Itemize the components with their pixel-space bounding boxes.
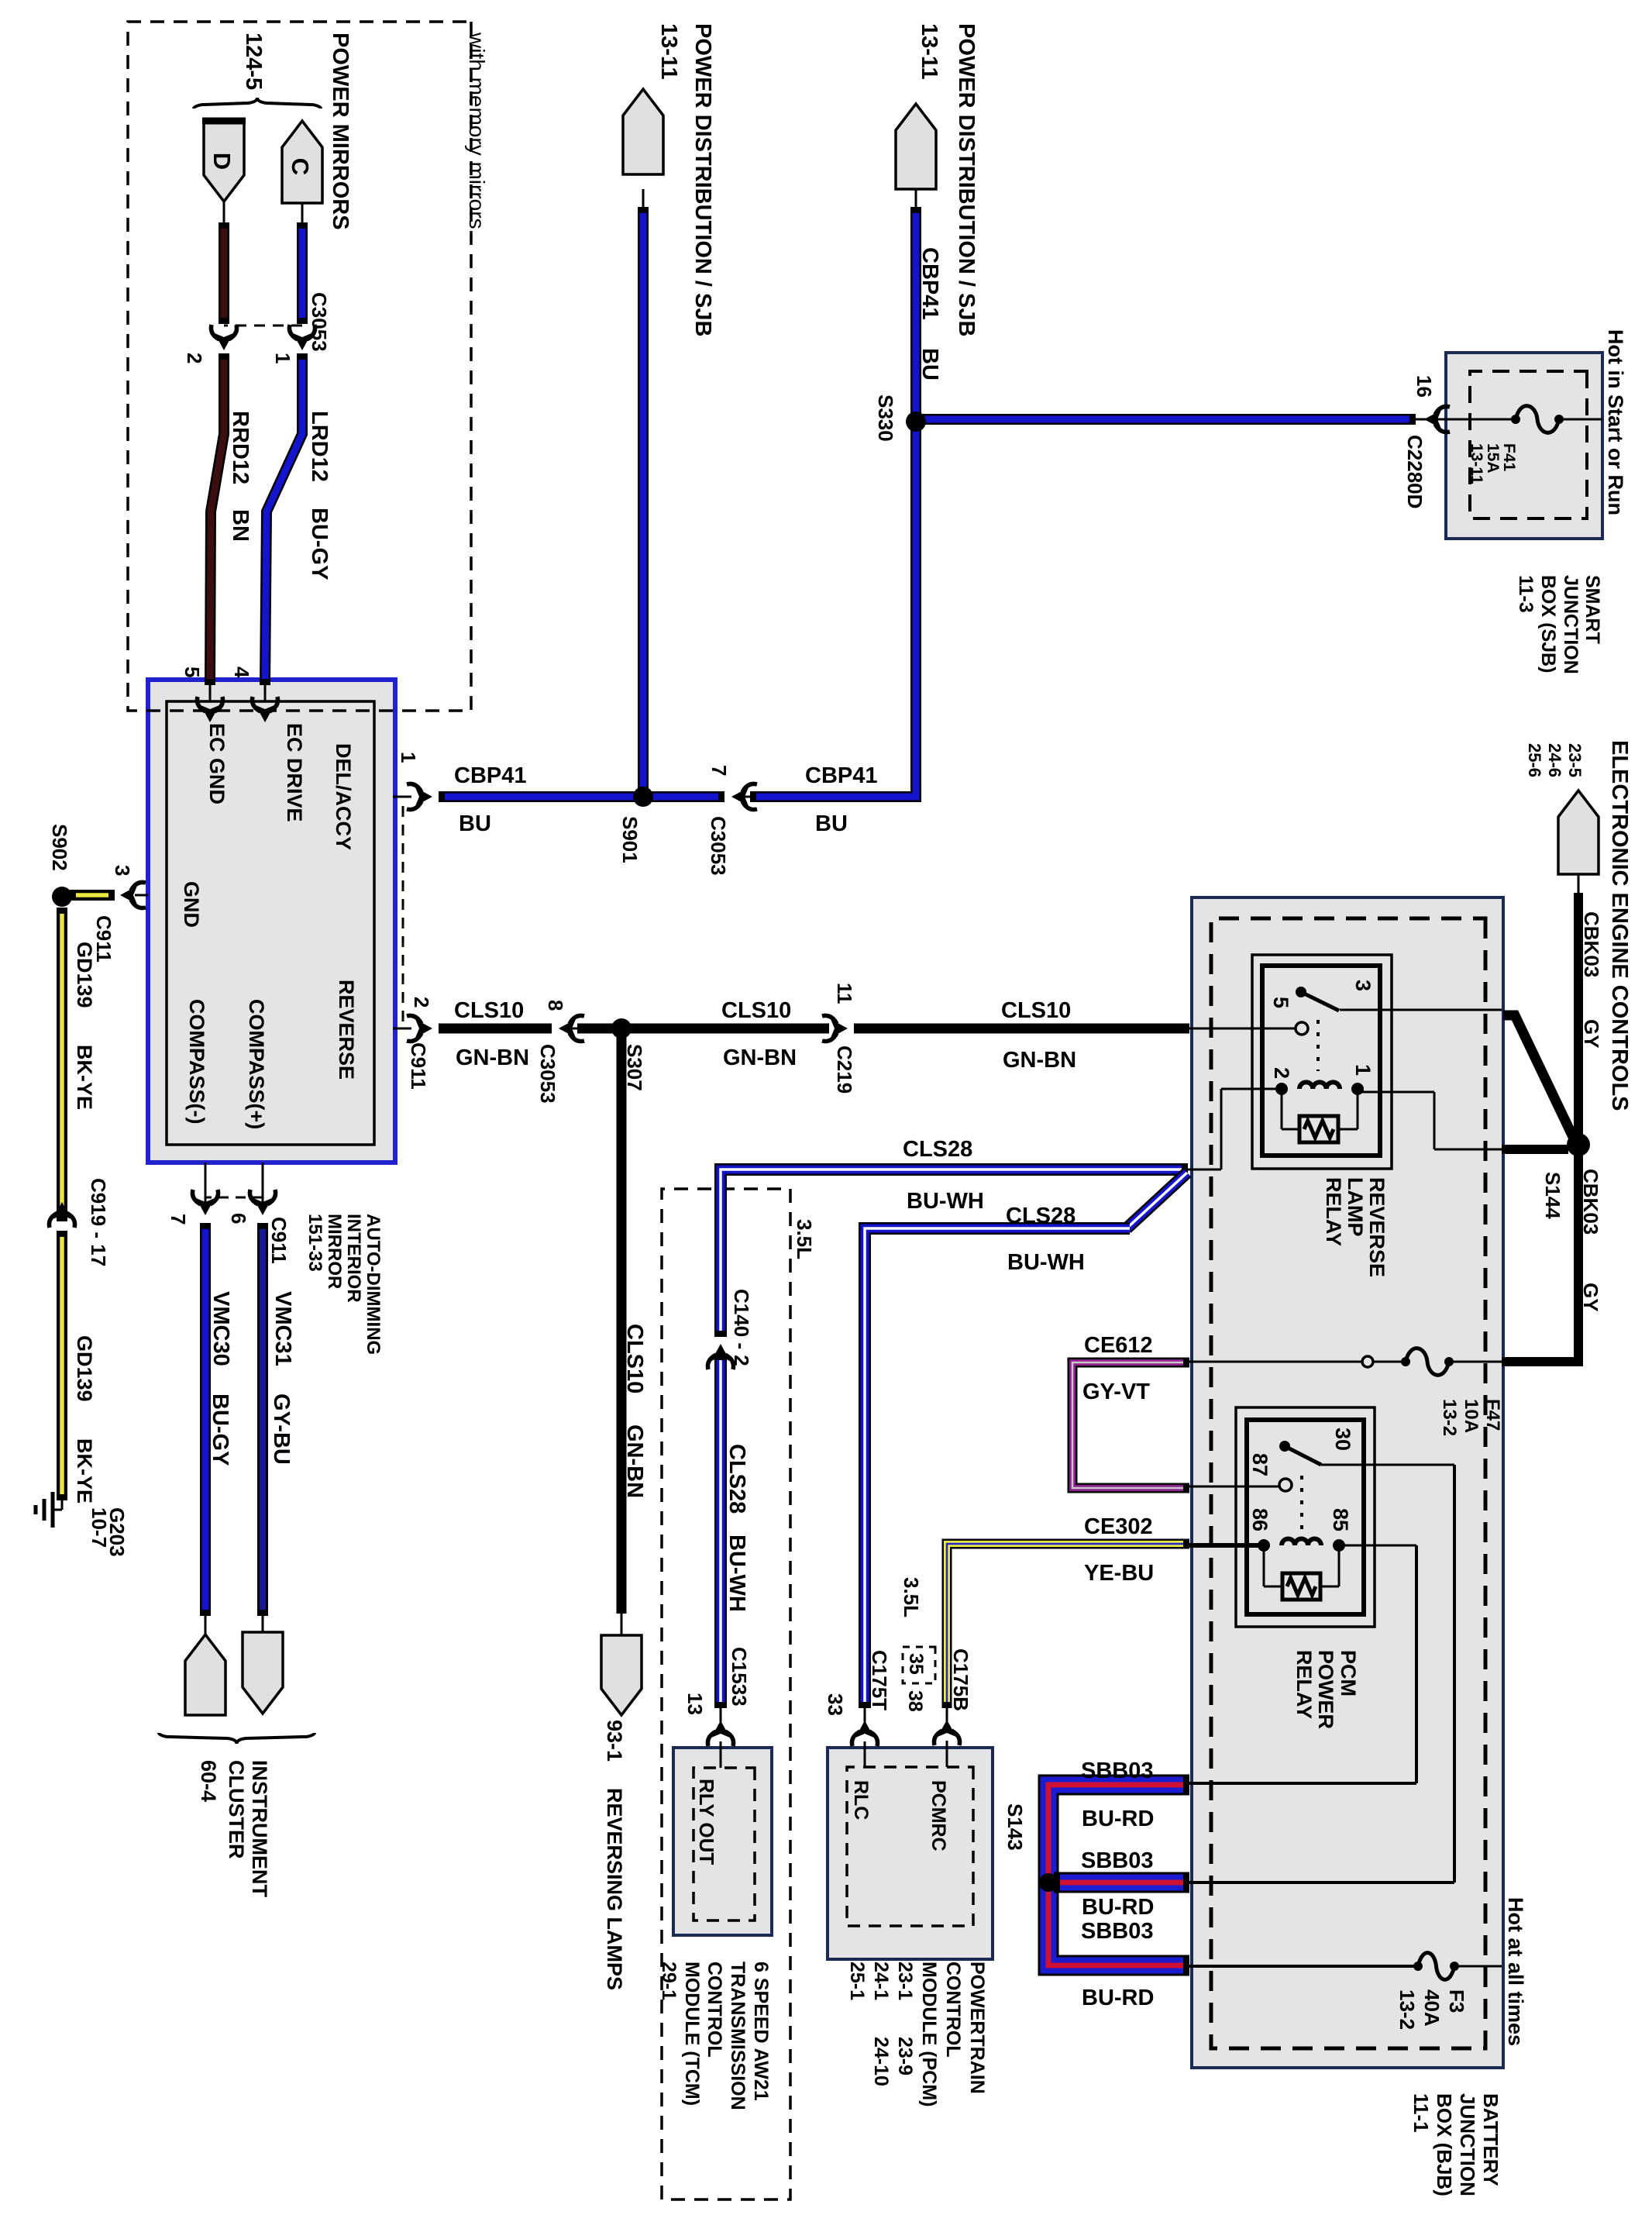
reverse lamp relay link dotted bbox=[1316, 1020, 1320, 1071]
svg-text:7: 7 bbox=[707, 765, 731, 776]
power mirrors brace 124-5 bbox=[194, 98, 321, 109]
svg-text:BOX (SJB): BOX (SJB) bbox=[1537, 575, 1559, 673]
wire CLS28 BU-WH diagonal split to PCM branch bbox=[1127, 1173, 1187, 1228]
svg-text:1: 1 bbox=[271, 353, 294, 363]
svg-text:GD139: GD139 bbox=[73, 942, 96, 1008]
svg-text:INTERIOR: INTERIOR bbox=[343, 1214, 364, 1303]
svg-text:C140 - 2: C140 - 2 bbox=[730, 1289, 753, 1366]
connector C911 pins 6 7 dashed link bbox=[205, 1197, 263, 1199]
svg-text:BU-GY: BU-GY bbox=[307, 508, 332, 580]
svg-text:CLS10: CLS10 bbox=[721, 998, 791, 1023]
svg-text:C3053: C3053 bbox=[707, 816, 730, 876]
svg-text:25-1: 25-1 bbox=[846, 1962, 868, 2000]
wire LRD12 BU-GY power mirror C to mirror pin4 bbox=[301, 203, 304, 225]
svg-text:SBB03: SBB03 bbox=[1081, 1848, 1154, 1873]
svg-text:8: 8 bbox=[544, 1000, 567, 1011]
svg-text:23-9: 23-9 bbox=[894, 2037, 916, 2075]
svg-text:TRANSMISSION: TRANSMISSION bbox=[727, 1962, 749, 2110]
wire S144 drop to relay pin1 feed bbox=[1502, 1145, 1568, 1154]
svg-text:RELAY: RELAY bbox=[1292, 1650, 1316, 1719]
svg-text:24-6: 24-6 bbox=[1545, 743, 1564, 777]
svg-text:JUNCTION: JUNCTION bbox=[1560, 575, 1581, 674]
svg-text:POWER: POWER bbox=[1314, 1650, 1337, 1729]
svg-text:C219: C219 bbox=[833, 1045, 856, 1094]
svg-text:ELECTRONIC ENGINE CONTROLS: ELECTRONIC ENGINE CONTROLS bbox=[1607, 740, 1632, 1111]
wire relay 87 drop inside BJB bbox=[1189, 1486, 1280, 1488]
svg-text:60-4: 60-4 bbox=[197, 1760, 220, 1802]
power distribution SJB arrow lower bbox=[623, 89, 663, 174]
wire CLS28 BU-WH vertical and run to PCM pin 33 bbox=[865, 1228, 1130, 1708]
ground G203 bbox=[51, 1492, 55, 1528]
wire RRD12 BN power mirror D to mirror pin5 bbox=[223, 202, 225, 225]
wire CBP41 BU S330 up to SJB C2280D bbox=[915, 414, 1416, 425]
svg-text:25-6: 25-6 bbox=[1525, 743, 1544, 777]
svg-text:Hot in Start or Run: Hot in Start or Run bbox=[1604, 329, 1627, 515]
svg-text:GY-BU: GY-BU bbox=[269, 1393, 294, 1465]
wire S144 diagonal to reverse relay pin3 bbox=[1503, 1015, 1574, 1138]
svg-text:LAMP: LAMP bbox=[1344, 1177, 1367, 1237]
svg-text:16: 16 bbox=[1413, 375, 1436, 398]
svg-text:C3053: C3053 bbox=[536, 1044, 559, 1104]
PCM power relay coil line to CE302 bbox=[1189, 1543, 1264, 1548]
reverse lamp relay resistor bbox=[1357, 1089, 1359, 1129]
svg-text:85: 85 bbox=[1329, 1508, 1352, 1531]
svg-text:C175B: C175B bbox=[949, 1648, 972, 1711]
svg-text:S307: S307 bbox=[623, 1044, 646, 1091]
svg-text:BU-WH: BU-WH bbox=[1007, 1250, 1085, 1275]
svg-text:CBK03: CBK03 bbox=[1579, 1169, 1602, 1235]
svg-text:CBP41: CBP41 bbox=[917, 247, 942, 320]
TCM 3.5L dashed outline bbox=[662, 1189, 790, 2199]
svg-text:POWER MIRRORS: POWER MIRRORS bbox=[328, 33, 353, 230]
wire SJB pin16 to fuse F41 bbox=[1446, 419, 1516, 421]
svg-text:INSTRUMENT: INSTRUMENT bbox=[248, 1760, 271, 1897]
svg-text:CLS10: CLS10 bbox=[1001, 998, 1071, 1023]
reverse lamp relay switch bbox=[1296, 987, 1306, 997]
svg-text:11-3: 11-3 bbox=[1515, 575, 1537, 613]
svg-text:1: 1 bbox=[1351, 1064, 1375, 1076]
svg-text:CLS28: CLS28 bbox=[1006, 1204, 1076, 1228]
svg-text:VMC31: VMC31 bbox=[270, 1291, 295, 1366]
svg-text:4: 4 bbox=[230, 667, 253, 678]
reverse lamp relay box bbox=[1252, 955, 1392, 1169]
svg-text:40A: 40A bbox=[1420, 1989, 1444, 2027]
svg-text:MODULE (TCM): MODULE (TCM) bbox=[681, 1962, 703, 2106]
reversing lamps arrow bbox=[601, 1635, 642, 1715]
svg-text:C2280D: C2280D bbox=[1403, 435, 1427, 508]
svg-text:3: 3 bbox=[1351, 980, 1375, 991]
svg-text:BK-YE: BK-YE bbox=[73, 1045, 96, 1110]
svg-text:33: 33 bbox=[824, 1693, 847, 1716]
svg-text:GN-BN: GN-BN bbox=[456, 1045, 529, 1070]
wire CLS10 GN-BN C219 to reverse lamp relay bbox=[822, 1015, 848, 1041]
svg-text:10-7: 10-7 bbox=[88, 1507, 111, 1548]
with memory mirrors dashed box bbox=[128, 22, 471, 711]
svg-text:BN: BN bbox=[228, 509, 253, 542]
wire GD139 BK-YE mirror GND pin3 to S902 bbox=[135, 894, 148, 897]
connector C911 mirror pins 1 2 dashed link bbox=[402, 806, 404, 1027]
wire SBB03 BU-RD 1 and 3 with S143 link bbox=[1048, 1785, 1189, 1965]
connector C175B pin35/38 arrow bbox=[934, 1720, 959, 1745]
svg-text:POWER DISTRIBUTION / SJB: POWER DISTRIBUTION / SJB bbox=[954, 23, 979, 336]
svg-text:YE-BU: YE-BU bbox=[1084, 1561, 1154, 1586]
svg-text:LRD12: LRD12 bbox=[307, 411, 332, 482]
svg-text:93-1: 93-1 bbox=[603, 1720, 626, 1762]
svg-text:124-5: 124-5 bbox=[241, 33, 266, 90]
svg-text:BU-RD: BU-RD bbox=[1082, 1807, 1154, 1831]
wire PCM relay coil top feed from SBB03 1 bbox=[1343, 1545, 1416, 1547]
junction S902 bbox=[52, 887, 72, 907]
svg-text:COMPASS(+): COMPASS(+) bbox=[245, 999, 268, 1129]
svg-text:CLUSTER: CLUSTER bbox=[225, 1760, 248, 1859]
svg-text:13-2: 13-2 bbox=[1396, 1989, 1419, 2030]
svg-text:6 SPEED AW21: 6 SPEED AW21 bbox=[750, 1962, 772, 2101]
svg-text:S902: S902 bbox=[48, 824, 71, 871]
wire F3 string bbox=[1457, 1965, 1502, 1968]
svg-text:BU-GY: BU-GY bbox=[208, 1393, 232, 1466]
svg-text:BK-YE: BK-YE bbox=[73, 1438, 96, 1504]
svg-text:13-11: 13-11 bbox=[917, 23, 941, 80]
connector C2280D pin16 arrow bbox=[1424, 406, 1450, 432]
svg-text:86: 86 bbox=[1248, 1508, 1272, 1531]
svg-text:C911: C911 bbox=[407, 1042, 430, 1090]
svg-text:29-1: 29-1 bbox=[658, 1962, 680, 2000]
svg-text:DEL/ACCY: DEL/ACCY bbox=[332, 743, 355, 850]
svg-text:with memory mirrors: with memory mirrors bbox=[465, 32, 489, 229]
svg-text:GN-BN: GN-BN bbox=[723, 1045, 797, 1070]
svg-text:23-1: 23-1 bbox=[894, 1962, 916, 2000]
electronic engine controls arrow bbox=[1558, 791, 1599, 874]
svg-text:13-11: 13-11 bbox=[1468, 443, 1485, 484]
svg-text:BU: BU bbox=[917, 348, 942, 381]
svg-text:24-10: 24-10 bbox=[870, 2037, 892, 2086]
svg-text:7: 7 bbox=[167, 1214, 190, 1225]
svg-text:87: 87 bbox=[1248, 1453, 1272, 1476]
junction S143 bbox=[1039, 1873, 1058, 1892]
svg-text:VMC30: VMC30 bbox=[208, 1291, 233, 1366]
PCM power relay box bbox=[1236, 1407, 1375, 1627]
svg-text:CBP41: CBP41 bbox=[454, 763, 527, 788]
wire CBP41 BU from power distribution arrow to S901 bbox=[642, 189, 645, 209]
svg-text:SBB03: SBB03 bbox=[1081, 1919, 1154, 1944]
fuse F41 15A bbox=[1516, 406, 1559, 433]
svg-text:24-1: 24-1 bbox=[870, 1962, 892, 2000]
wire SBB03 BU-RD 2 bbox=[1054, 1872, 1189, 1893]
svg-text:POWER DISTRIBUTION / SJB: POWER DISTRIBUTION / SJB bbox=[690, 23, 715, 336]
fuse F47 10A bbox=[1406, 1349, 1449, 1376]
svg-text:PCM: PCM bbox=[1337, 1650, 1360, 1696]
svg-text:38: 38 bbox=[904, 1690, 926, 1712]
svg-text:D: D bbox=[208, 153, 236, 170]
svg-text:RLY OUT: RLY OUT bbox=[695, 1779, 718, 1865]
power mirror arrow C bbox=[282, 121, 322, 203]
svg-text:11: 11 bbox=[833, 983, 856, 1004]
wire VMC30 BU-GY mirror pin7 to instrument cluster bbox=[205, 1163, 207, 1206]
PCM box bbox=[828, 1748, 993, 1959]
svg-text:C175T: C175T bbox=[868, 1650, 891, 1710]
svg-text:GY: GY bbox=[1580, 1019, 1603, 1049]
connector C1533 pin13 arrow bbox=[707, 1721, 733, 1746]
svg-text:35: 35 bbox=[905, 1653, 927, 1675]
svg-text:F47: F47 bbox=[1482, 1399, 1503, 1431]
wire reverse relay pin3 riser bbox=[1340, 1009, 1502, 1011]
wire reverse relay pin2 to CLS28 exit bbox=[1221, 1088, 1277, 1090]
svg-text:CLS28: CLS28 bbox=[724, 1444, 749, 1514]
svg-text:BOX (BJB): BOX (BJB) bbox=[1433, 2093, 1456, 2196]
svg-text:C1533: C1533 bbox=[728, 1647, 751, 1707]
svg-text:13-2: 13-2 bbox=[1439, 1399, 1460, 1436]
wire CBP41 BU pin1 to S901 segment bbox=[393, 796, 411, 798]
TCM box bbox=[673, 1748, 772, 1935]
svg-text:MIRROR: MIRROR bbox=[324, 1214, 345, 1289]
auto-dimming interior mirror box bbox=[148, 680, 395, 1163]
svg-text:BU: BU bbox=[459, 811, 491, 836]
svg-text:AUTO-DIMMING: AUTO-DIMMING bbox=[363, 1214, 384, 1355]
svg-text:CLS28: CLS28 bbox=[903, 1137, 972, 1162]
svg-text:GD139: GD139 bbox=[73, 1335, 96, 1402]
svg-text:CLS10: CLS10 bbox=[454, 998, 524, 1023]
svg-text:3: 3 bbox=[111, 865, 134, 876]
svg-text:CE612: CE612 bbox=[1084, 1333, 1153, 1358]
wire VMC31 GY-BU mirror pin6 to instrument cluster bbox=[262, 1163, 264, 1206]
svg-text:RLC: RLC bbox=[850, 1780, 872, 1820]
svg-text:BU: BU bbox=[815, 811, 848, 836]
svg-text:S330: S330 bbox=[874, 394, 897, 442]
svg-text:F3: F3 bbox=[1445, 1989, 1468, 2013]
svg-text:13: 13 bbox=[683, 1693, 707, 1715]
power distribution SJB arrow upper bbox=[896, 104, 936, 189]
connector C3053 power mirror labels bbox=[224, 325, 302, 327]
battery junction box BJB bbox=[1192, 897, 1503, 2068]
svg-text:3.5L: 3.5L bbox=[900, 1577, 923, 1617]
svg-text:GND: GND bbox=[180, 881, 203, 928]
wire PCM relay pin30 riser and feed from SBB03 2 bbox=[1321, 1464, 1454, 1466]
wire CLS10 GN-BN pin2 segment bbox=[393, 1028, 411, 1030]
wire GD139 BK-YE C919-17 to G203 ground bbox=[57, 1231, 67, 1500]
junction S144 bbox=[1567, 1133, 1590, 1156]
instrument cluster brace bbox=[159, 1733, 315, 1744]
power mirror arrow D bbox=[204, 121, 244, 202]
svg-text:MODULE (PCM): MODULE (PCM) bbox=[918, 1962, 940, 2106]
wire GD139 BK-YE S902 to C919-17 bbox=[57, 908, 67, 1221]
instrument cluster arrow pin6 bbox=[243, 1632, 283, 1714]
svg-text:COMPASS(-): COMPASS(-) bbox=[185, 999, 208, 1125]
smart junction box SJB bbox=[1446, 353, 1602, 539]
svg-text:C911: C911 bbox=[267, 1217, 291, 1264]
wire CLS28 BU-WH relay pin2 exit run to C140-2 bbox=[721, 1169, 1188, 1337]
wire CLS10 inside BJB to relay pin5 bbox=[1189, 1028, 1296, 1030]
svg-text:15A: 15A bbox=[1484, 443, 1502, 474]
wire CE302 YE-BU BJB coil to PCM pin 35/38 bbox=[947, 1544, 1189, 1708]
junction S330 bbox=[906, 412, 926, 432]
svg-text:REVERSE: REVERSE bbox=[1365, 1177, 1389, 1277]
svg-text:CE302: CE302 bbox=[1084, 1514, 1153, 1539]
svg-text:2: 2 bbox=[410, 997, 433, 1008]
svg-text:151-33: 151-33 bbox=[305, 1214, 325, 1272]
svg-text:CBP41: CBP41 bbox=[805, 763, 878, 788]
wire CBP41 BU S330 to corner to C3053-7 bbox=[750, 422, 916, 797]
svg-text:S144: S144 bbox=[1541, 1172, 1564, 1219]
wire CLS10 GN-BN C3053-8 to S307 bbox=[559, 1015, 584, 1041]
junction S307 bbox=[611, 1018, 632, 1039]
wire F47 string inside BJB bbox=[1449, 1361, 1502, 1363]
svg-text:23-5: 23-5 bbox=[1565, 743, 1585, 777]
svg-text:5: 5 bbox=[1269, 997, 1292, 1008]
wire CE612 GY-VT BJB F47 to PCM power relay 87 loop bbox=[1072, 1362, 1189, 1488]
junction S901 bbox=[633, 787, 653, 807]
svg-text:GY: GY bbox=[1579, 1283, 1602, 1312]
svg-text:GY-VT: GY-VT bbox=[1082, 1380, 1150, 1404]
svg-text:CONTROL: CONTROL bbox=[942, 1962, 964, 2058]
svg-text:10A: 10A bbox=[1461, 1399, 1482, 1433]
svg-text:CLS10: CLS10 bbox=[622, 1324, 647, 1393]
svg-text:BATTERY: BATTERY bbox=[1479, 2093, 1502, 2186]
svg-text:CONTROL: CONTROL bbox=[704, 1962, 725, 2058]
svg-text:C: C bbox=[287, 158, 314, 175]
svg-text:Hot at all times: Hot at all times bbox=[1504, 1897, 1527, 2046]
wire CBK03 GY S144 to F47 drop bbox=[1502, 1152, 1578, 1362]
svg-text:SMART: SMART bbox=[1581, 575, 1603, 644]
wire CLS10 GN-BN S307 to reversing lamps arrow bbox=[617, 1035, 627, 1614]
svg-text:RRD12: RRD12 bbox=[228, 411, 253, 484]
wire reverse relay pin1 feed zigzag bbox=[1434, 1149, 1502, 1151]
svg-text:GN-BN: GN-BN bbox=[622, 1424, 647, 1498]
svg-text:PCMRC: PCMRC bbox=[928, 1780, 949, 1851]
PCM power relay resistor bbox=[1338, 1545, 1341, 1586]
svg-text:2: 2 bbox=[1270, 1067, 1293, 1079]
svg-text:BU-RD: BU-RD bbox=[1082, 1986, 1154, 2010]
connector C919-17 arrow bbox=[49, 1202, 74, 1228]
wire CBP41 BU S330 to power distribution arrow 2 bbox=[915, 189, 917, 209]
svg-text:EC GND: EC GND bbox=[205, 723, 229, 804]
PCM power relay switch bbox=[1279, 1441, 1290, 1452]
PCM power relay link dotted bbox=[1300, 1476, 1303, 1531]
svg-text:CBK03: CBK03 bbox=[1580, 911, 1603, 977]
svg-text:C3053: C3053 bbox=[308, 292, 331, 352]
svg-text:1: 1 bbox=[397, 752, 420, 763]
instrument cluster arrow pin7 bbox=[185, 1634, 225, 1715]
svg-text:S143: S143 bbox=[1003, 1803, 1027, 1851]
svg-text:JUNCTION: JUNCTION bbox=[1456, 2093, 1479, 2196]
svg-text:30: 30 bbox=[1331, 1428, 1354, 1451]
svg-text:BU-WH: BU-WH bbox=[907, 1189, 984, 1214]
svg-text:EC DRIVE: EC DRIVE bbox=[283, 723, 306, 822]
svg-text:REVERSING LAMPS: REVERSING LAMPS bbox=[603, 1788, 626, 1990]
svg-text:REVERSE: REVERSE bbox=[335, 980, 358, 1080]
wire CBK03 GY electronic engine controls to S144 bbox=[1578, 874, 1580, 895]
svg-text:5: 5 bbox=[181, 667, 204, 677]
PCM power relay coil bbox=[1333, 1539, 1345, 1552]
svg-text:S901: S901 bbox=[618, 816, 642, 863]
svg-text:13-11: 13-11 bbox=[656, 23, 681, 80]
svg-text:BU-RD: BU-RD bbox=[1082, 1895, 1154, 1920]
svg-text:F41: F41 bbox=[1500, 443, 1518, 472]
svg-text:SBB03: SBB03 bbox=[1081, 1758, 1154, 1783]
svg-text:11-1: 11-1 bbox=[1409, 2093, 1433, 2133]
wire CBP41 BU S901 up through C3053-7 to corner bbox=[643, 791, 724, 802]
reverse lamp relay coil bbox=[1351, 1083, 1364, 1095]
svg-text:2: 2 bbox=[183, 353, 206, 363]
svg-text:6: 6 bbox=[227, 1213, 250, 1224]
connector C175T pin33 arrow bbox=[852, 1721, 877, 1746]
svg-text:3.5L: 3.5L bbox=[793, 1219, 816, 1259]
svg-text:BU-WH: BU-WH bbox=[724, 1535, 749, 1612]
svg-text:RELAY: RELAY bbox=[1322, 1177, 1345, 1246]
svg-text:GN-BN: GN-BN bbox=[1003, 1048, 1076, 1073]
svg-text:C919 - 17: C919 - 17 bbox=[87, 1178, 110, 1266]
svg-text:POWERTRAIN: POWERTRAIN bbox=[966, 1962, 988, 2094]
fuse F3 40A bbox=[1418, 1953, 1454, 1980]
wire CLS10 GN-BN S307 to C219 bbox=[628, 1024, 829, 1034]
